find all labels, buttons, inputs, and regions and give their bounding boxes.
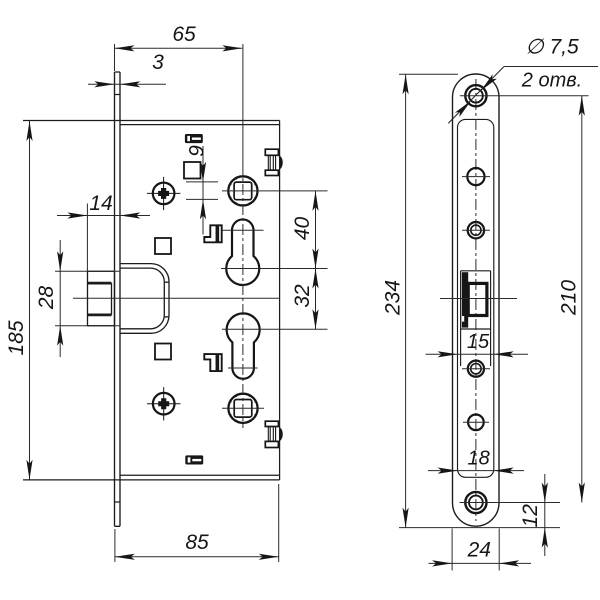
dim 24 [429,529,532,571]
svg-text:65: 65 [172,23,196,46]
latch housing (rounded box right of faceplate), double contour [120,264,169,334]
keyhole (cylinder profile) top [226,219,259,285]
svg-text:15: 15 [467,331,490,353]
dim 3 [88,83,166,85]
phillips screw bottom [147,387,180,420]
dim 14 [57,204,150,272]
svg-text:2 отв.: 2 отв. [521,70,582,92]
dim 12 [544,474,546,556]
svg-text:32: 32 [291,284,314,308]
body top outer edge (with 185 extension) [23,120,280,122]
dim 85 [115,484,279,562]
svg-text:210: 210 [558,280,581,316]
svg-text:14: 14 [89,192,112,215]
svg-text:24: 24 [467,539,491,562]
latch centreline [73,297,280,299]
L-bracket bottom (mirrored) [204,354,221,371]
spindle square hole bottom [228,394,257,423]
dim 15 [426,353,529,355]
dim 234 [399,74,560,527]
dim 40 / 32 [315,191,317,329]
side tab top (right body edge) [265,149,282,175]
inner recessed rounded rect [458,119,494,477]
svg-text:18: 18 [467,448,489,470]
bottom countersunk hole [465,492,486,513]
body top inner edge [120,124,280,126]
leader diameter 7,5 [448,67,598,124]
latch slot in plate [461,271,491,366]
small square hole upper middle [184,162,201,179]
latch centreline right view [440,298,517,300]
small square hole left lower [155,344,171,360]
dim 28 [55,240,120,357]
L-bracket top [204,225,221,242]
phillips screw top [147,177,180,210]
dim 18 [428,470,524,472]
screw hole with inner [468,222,484,238]
hole r8.6 [467,168,484,185]
svg-text:9: 9 [186,145,209,157]
plate centreline [475,79,477,521]
latch bolt seen in slot [462,272,468,327]
main centreline through holes [242,44,244,164]
dim 210 [581,96,583,503]
svg-text:185: 185 [5,320,28,355]
spindle hole top ticks / 40-extension [222,190,328,192]
keyhole (cylinder profile) bottom, mirrored [227,313,260,378]
plate outline [453,74,500,526]
spindle square hole top [228,176,257,205]
dim 65 [115,47,243,49]
small square hole left upper [155,238,171,254]
body right edge [279,121,281,481]
svg-text:∅ 7,5: ∅ 7,5 [525,36,579,59]
slotted rivet top [185,134,203,143]
svg-text:40: 40 [291,217,314,241]
faceplate [115,72,121,526]
top countersunk hole [465,85,486,106]
screw hole with inner 2 [468,361,484,377]
dim 9 [186,146,218,235]
hole r7.8 [468,415,484,431]
svg-text:12: 12 [519,504,542,528]
svg-text:28: 28 [35,286,58,311]
slotted rivet bottom [185,455,203,464]
svg-text:85: 85 [185,531,209,554]
dim 185 [29,121,31,480]
svg-text:234: 234 [382,280,405,316]
body bottom outer edge (with 185 extension) [23,479,280,481]
side tab bottom [265,421,282,447]
latch bolt head (left of faceplate) [88,271,115,325]
body bottom inner edge [120,474,280,476]
svg-text:3: 3 [152,51,164,74]
